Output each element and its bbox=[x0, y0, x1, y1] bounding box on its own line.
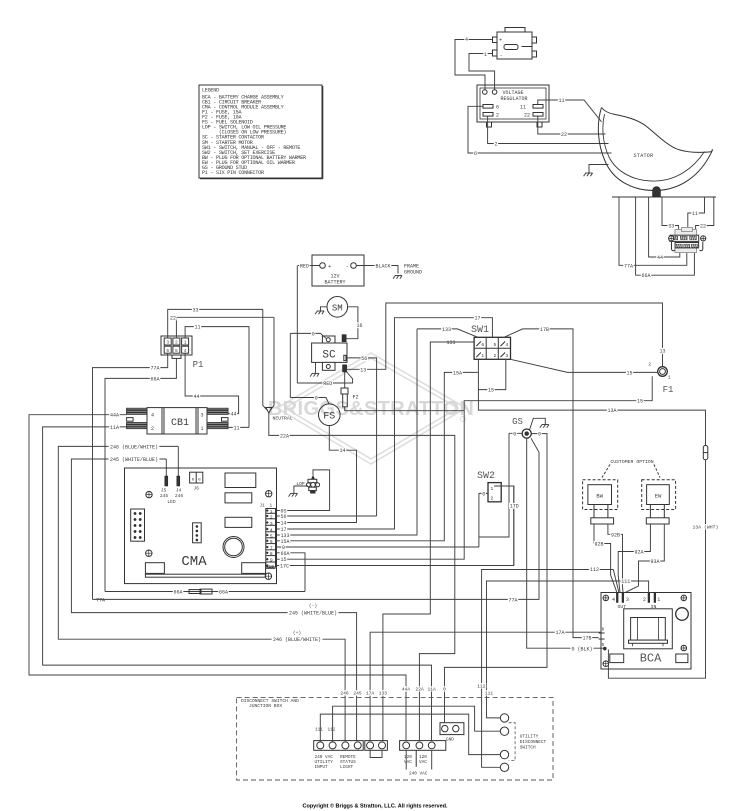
svg-text:5: 5 bbox=[270, 533, 273, 539]
label 11A bbox=[109, 424, 120, 430]
label 0 (J1) bbox=[281, 544, 285, 550]
wire 133 (upper, to SW1-6) bbox=[417, 329, 478, 337]
svg-text:P1: P1 bbox=[193, 360, 204, 370]
wire 22 (P1-2) bbox=[176, 317, 273, 338]
frame ground bbox=[393, 276, 402, 279]
svg-text:4: 4 bbox=[465, 37, 468, 43]
svg-text:66A: 66A bbox=[219, 590, 228, 596]
wire 17B (SW1-4 to BCA-5) bbox=[504, 329, 599, 638]
BCA screw BL bbox=[603, 661, 609, 667]
BCA foot L bbox=[610, 654, 624, 663]
label 245 bbox=[109, 456, 160, 462]
label 11 (conn) bbox=[691, 210, 698, 216]
label 44 bbox=[656, 254, 663, 260]
wire 17C (J1-10 to SW2) bbox=[276, 486, 514, 566]
wire F2 output to 15 net bbox=[345, 407, 465, 411]
label 17D bbox=[509, 503, 520, 509]
svg-text:-: - bbox=[500, 53, 503, 59]
label 246 bbox=[109, 444, 160, 450]
svg-text:22A: 22A bbox=[280, 433, 289, 439]
terminal strip (utility input / remote light) bbox=[314, 741, 364, 751]
wire SC to F2 bbox=[344, 372, 346, 388]
label 0 (FS) bbox=[314, 395, 318, 401]
wire RED battery to SC bbox=[297, 372, 352, 383]
svg-text:17C: 17C bbox=[280, 564, 289, 570]
J1 pin 8 bbox=[266, 555, 276, 557]
engine connector top pin 1 bbox=[671, 236, 678, 240]
engine connector bottom pin 5 bbox=[684, 244, 690, 247]
svg-text:DISCONNECT: DISCONNECT bbox=[520, 740, 547, 745]
svg-text:44: 44 bbox=[230, 412, 236, 418]
wire 56 (J1-2) bbox=[276, 515, 377, 517]
svg-text:(+): (+) bbox=[293, 630, 301, 636]
switch SW1 manual-off-remote bbox=[474, 337, 510, 359]
label 11 (CB1) bbox=[233, 425, 240, 431]
wire 17A (junction box to BCA-6) bbox=[370, 632, 601, 741]
wire 77A bottom run to GS bbox=[93, 438, 540, 599]
label 15 (F1) bbox=[626, 370, 633, 376]
svg-text:66A: 66A bbox=[150, 376, 159, 382]
svg-text:+: + bbox=[499, 38, 502, 44]
wire 245 (white/blue) bbox=[71, 459, 356, 741]
wire 111 (input to switch) bbox=[320, 714, 500, 755]
label 0 (SW2) bbox=[482, 491, 486, 497]
wire 92B (BW to BCA out) bbox=[608, 524, 623, 593]
label 17B (BCA) bbox=[582, 635, 593, 641]
label 92A bbox=[634, 549, 645, 555]
CB1 lug bar bbox=[127, 413, 147, 414]
svg-text:111: 111 bbox=[315, 728, 323, 733]
BCA inner box bbox=[624, 609, 673, 649]
label 0 (GS left) bbox=[513, 431, 517, 437]
J1 pin 4 bbox=[266, 531, 276, 533]
svg-text:15: 15 bbox=[637, 399, 643, 405]
label 17A bbox=[555, 630, 566, 636]
wire 16 SM to SC bbox=[346, 307, 358, 339]
CMA 10-pin header bbox=[131, 509, 145, 541]
svg-text:1: 1 bbox=[491, 486, 494, 492]
SW1 contact 6 bbox=[476, 342, 481, 347]
label 111 bbox=[621, 578, 632, 584]
wire 33 (P1-3) bbox=[168, 309, 263, 338]
svg-text:56: 56 bbox=[280, 514, 286, 520]
svg-text:4: 4 bbox=[184, 348, 187, 354]
svg-text:15A: 15A bbox=[453, 370, 462, 376]
svg-text:13: 13 bbox=[360, 367, 366, 373]
svg-text:17B: 17B bbox=[582, 636, 591, 642]
label 133 (SW1 up) bbox=[441, 326, 452, 332]
wire 66A (J1-8 to fuse) bbox=[276, 553, 306, 592]
wire 0 vertical SC to FS bbox=[289, 333, 291, 397]
label 66A (P1) bbox=[150, 376, 161, 382]
svg-text:92B: 92B bbox=[594, 542, 603, 548]
wire 13 (SC to F1) bbox=[347, 303, 663, 369]
svg-text:14: 14 bbox=[339, 448, 345, 454]
CB1 lug bar bbox=[127, 408, 147, 409]
circuit breaker CB1 bbox=[147, 408, 207, 434]
CMA bottom tab L bbox=[145, 563, 164, 574]
svg-text:GROUND: GROUND bbox=[404, 270, 422, 276]
svg-text:J5: J5 bbox=[161, 488, 167, 494]
svg-text:6: 6 bbox=[270, 539, 273, 545]
svg-text:0: 0 bbox=[443, 686, 446, 692]
output terminal screw x=431.7 bbox=[428, 742, 435, 749]
label 66A (fuse R) bbox=[218, 589, 229, 595]
label 33 bbox=[668, 223, 675, 229]
svg-text:33: 33 bbox=[192, 307, 198, 313]
svg-text:BCA: BCA bbox=[640, 652, 662, 666]
wire 133 (lower, SW1-6 to junction box) bbox=[383, 342, 474, 741]
svg-text:2: 2 bbox=[494, 142, 497, 148]
wire 15 (J1-9 to F1) bbox=[276, 376, 653, 559]
svg-text:133: 133 bbox=[379, 690, 388, 696]
wire 0 (GS right to GND lug) bbox=[445, 434, 548, 723]
label 246 (strip) bbox=[340, 690, 350, 695]
svg-text:2: 2 bbox=[648, 361, 651, 367]
svg-text:246 (BLUE/WHITE): 246 (BLUE/WHITE) bbox=[273, 637, 321, 643]
svg-text:1: 1 bbox=[481, 353, 484, 359]
svg-text:111: 111 bbox=[621, 579, 630, 585]
svg-text:11: 11 bbox=[233, 425, 239, 431]
svg-text:2: 2 bbox=[151, 426, 154, 432]
CB1 lug bar bbox=[127, 423, 147, 424]
svg-text:1: 1 bbox=[270, 504, 273, 509]
CB1 lug bar bbox=[207, 413, 228, 414]
wire 33 to neutral bbox=[263, 309, 267, 410]
label 245 (strip) bbox=[353, 690, 363, 695]
wire 111 (BCA in) bbox=[487, 581, 649, 718]
svg-text:5: 5 bbox=[493, 342, 496, 348]
svg-text:66A: 66A bbox=[641, 273, 650, 279]
CB1 mid tab L bbox=[127, 418, 134, 422]
svg-text:3: 3 bbox=[270, 521, 273, 527]
svg-text:1: 1 bbox=[484, 52, 487, 58]
wire 0 (GS left drop) bbox=[479, 433, 522, 537]
fuse F1 15A bbox=[658, 367, 668, 377]
svg-text:16: 16 bbox=[356, 323, 362, 329]
CMA buzzer bbox=[223, 537, 244, 558]
connector P1 bbox=[161, 336, 192, 355]
wire RED battery positive bbox=[297, 266, 319, 384]
svg-text:3: 3 bbox=[166, 340, 169, 346]
wire 112 (input to switch) bbox=[333, 706, 501, 742]
switch SW2 set exercise bbox=[488, 483, 501, 502]
starter motor SM bbox=[327, 297, 348, 318]
label 14 bbox=[339, 448, 346, 454]
wire stator ground lead bbox=[589, 165, 609, 174]
svg-text:BATTERY: BATTERY bbox=[324, 280, 345, 286]
label 11 (P1) bbox=[194, 324, 201, 330]
J1 pin 9 bbox=[266, 561, 276, 563]
svg-text:SM: SM bbox=[332, 303, 343, 313]
svg-text:GND: GND bbox=[446, 737, 454, 742]
ground (stator) bbox=[584, 173, 593, 176]
svg-text:22: 22 bbox=[700, 224, 706, 230]
svg-text:112: 112 bbox=[590, 567, 599, 573]
engine connector top pin 3 bbox=[690, 236, 697, 240]
svg-text:11: 11 bbox=[194, 325, 200, 331]
svg-text:F1: F1 bbox=[663, 385, 674, 395]
svg-text:111: 111 bbox=[485, 690, 494, 696]
utility disconnect switch contacts bbox=[500, 714, 508, 722]
wire 1 (charger - to VR) bbox=[469, 54, 495, 90]
wire 13A (SW1-1 down to splice) bbox=[478, 359, 705, 445]
svg-text:245 (WHITE/BLUE): 245 (WHITE/BLUE) bbox=[289, 611, 337, 617]
svg-text:P1 - SIX PIN CONNECTOR: P1 - SIX PIN CONNECTOR bbox=[202, 170, 264, 176]
label 0S bbox=[280, 508, 287, 514]
wire 246 (blue/white) bbox=[58, 446, 345, 741]
svg-text:246 (BLUE/WHITE): 246 (BLUE/WHITE) bbox=[110, 444, 158, 450]
svg-text:92B: 92B bbox=[611, 532, 620, 538]
voltage regulator U-VR bbox=[477, 85, 549, 127]
svg-text:VAC: VAC bbox=[404, 760, 412, 765]
engine connector top pin 2 bbox=[680, 236, 687, 240]
label 22A bbox=[279, 433, 290, 439]
terminal strip (17A/133) bbox=[365, 741, 388, 751]
svg-text:0 (BLK): 0 (BLK) bbox=[571, 647, 592, 653]
svg-text:2: 2 bbox=[270, 514, 273, 520]
BCA pin 6 tick bbox=[599, 632, 605, 634]
wire 17C (SW2-1) bbox=[494, 486, 514, 566]
svg-text:14: 14 bbox=[280, 521, 286, 527]
CMA relay block 3 bbox=[225, 517, 252, 527]
battery charge assembly BCA bbox=[601, 593, 691, 670]
BCA screw TL bbox=[603, 595, 609, 601]
svg-text:6: 6 bbox=[602, 627, 605, 633]
terminal screw x=357.7 bbox=[354, 742, 361, 749]
wire 11 stub (CB1-1) bbox=[228, 426, 249, 428]
wire 11 (P1-1 to CB1) bbox=[185, 327, 249, 428]
label (+) bbox=[292, 630, 302, 635]
engine connector bottom pin 4 bbox=[676, 244, 682, 247]
svg-text:13A: 13A bbox=[607, 408, 616, 414]
svg-text:e: e bbox=[192, 478, 195, 483]
svg-text:11: 11 bbox=[692, 211, 698, 217]
CMA relay block 2 bbox=[225, 493, 252, 503]
J1 pin 1 bbox=[266, 512, 276, 514]
wire 22 to neutral bbox=[271, 317, 275, 410]
P1 pin 5 bbox=[173, 346, 180, 353]
label 13 (SC) bbox=[360, 367, 367, 373]
wire 44 (stator) bbox=[649, 197, 680, 257]
svg-text:F2: F2 bbox=[353, 395, 359, 401]
label 15 (F1 bottom) bbox=[636, 398, 643, 404]
CB1 lug bar bbox=[127, 425, 147, 426]
svg-text:JUNCTION BOX: JUNCTION BOX bbox=[249, 703, 282, 709]
CB1 lug bar bbox=[207, 411, 228, 412]
CMA screw BL bbox=[146, 550, 152, 556]
svg-text:SC: SC bbox=[322, 350, 336, 362]
wire 77A (P1-6 left) bbox=[93, 353, 168, 599]
svg-text:17B: 17B bbox=[540, 327, 549, 333]
label pin 2 (F1) bbox=[648, 361, 652, 366]
label LOP bbox=[296, 481, 306, 486]
ground (SM) bbox=[315, 311, 324, 314]
label 44A (strip) bbox=[401, 686, 411, 691]
svg-text:133: 133 bbox=[446, 340, 455, 346]
svg-text:56: 56 bbox=[361, 356, 367, 362]
svg-text:17A: 17A bbox=[555, 630, 564, 636]
wire 2 (VR to stator) bbox=[488, 116, 609, 143]
wire 66A bottom run bbox=[105, 591, 305, 593]
svg-text:33: 33 bbox=[668, 224, 674, 230]
label 11A (strip) bbox=[427, 686, 437, 691]
svg-text:BLACK: BLACK bbox=[375, 264, 390, 270]
BCA IN pins bbox=[648, 593, 650, 603]
svg-text:1: 1 bbox=[201, 426, 204, 432]
svg-text:133: 133 bbox=[442, 327, 451, 333]
terminal screw x=332.6 bbox=[329, 742, 336, 749]
terminal strip (120/240 VAC output) bbox=[400, 741, 446, 751]
label RED (SC) bbox=[322, 380, 333, 386]
label 56 (J1) bbox=[280, 513, 287, 519]
label 93B bbox=[594, 541, 605, 547]
label 66A (fuse L) bbox=[173, 589, 184, 595]
svg-text:0: 0 bbox=[312, 331, 315, 337]
starter contactor SC bbox=[312, 336, 347, 370]
wire 22 (stator) bbox=[696, 197, 714, 236]
svg-text:11A: 11A bbox=[427, 686, 436, 692]
svg-text:6: 6 bbox=[481, 342, 484, 348]
label 0 (strip) bbox=[443, 686, 447, 691]
svg-text:44A: 44A bbox=[402, 686, 411, 692]
svg-text:LEGEND: LEGEND bbox=[202, 88, 219, 94]
CB1 mid tab R bbox=[222, 418, 229, 422]
engine 6-pin connector bbox=[670, 228, 699, 253]
wire 22A (neutral to junction box) bbox=[269, 413, 455, 741]
J1 pin 6 bbox=[266, 543, 276, 545]
label RED bbox=[299, 263, 310, 269]
label 11 bbox=[558, 97, 565, 103]
svg-text:RED: RED bbox=[323, 381, 332, 387]
label 246 (bottom) bbox=[272, 637, 323, 643]
wire 66A (P1-5 left) bbox=[105, 358, 176, 591]
label 15A (SW1) bbox=[452, 370, 463, 376]
label 22A (strip) bbox=[415, 686, 425, 691]
svg-text:2: 2 bbox=[491, 495, 494, 501]
P1 pin 3 bbox=[164, 338, 171, 345]
svg-text:10: 10 bbox=[268, 564, 274, 570]
svg-text:DISCONNECT SWITCH AND: DISCONNECT SWITCH AND bbox=[241, 698, 299, 704]
svg-text:6: 6 bbox=[474, 151, 477, 157]
label 44A bbox=[109, 412, 120, 418]
label 77A (right) bbox=[508, 597, 519, 603]
wire 77A (stator) bbox=[619, 197, 687, 265]
label 112 bbox=[589, 566, 600, 572]
wire 4 (charger + to VR) bbox=[455, 40, 493, 90]
legend box bbox=[199, 85, 322, 178]
BCA OUT pins bbox=[616, 593, 618, 603]
svg-text:22: 22 bbox=[170, 315, 176, 321]
label 111 (strip) bbox=[484, 690, 494, 695]
P1 pin 2 bbox=[173, 338, 180, 345]
svg-text:44: 44 bbox=[193, 394, 199, 400]
watermark Briggs & Stratton logo bbox=[277, 353, 466, 464]
svg-text:8: 8 bbox=[270, 551, 273, 557]
wire BLACK battery negative bbox=[356, 266, 398, 274]
svg-text:17D: 17D bbox=[510, 504, 519, 510]
label 22 bbox=[560, 131, 567, 137]
svg-text:INPUT: INPUT bbox=[315, 765, 329, 770]
engine connector clip R bbox=[700, 242, 703, 251]
wire 44 (P1-4 to CB1) bbox=[185, 353, 239, 413]
label 44 (P1) bbox=[193, 393, 200, 399]
label 15 (jumper) bbox=[487, 387, 494, 393]
svg-text:LED: LED bbox=[167, 499, 176, 505]
svg-text:112: 112 bbox=[477, 683, 486, 689]
wire SM ground lead bbox=[321, 307, 328, 311]
wire 11A (CB1-2 to junction box) bbox=[43, 427, 432, 741]
wire 0 (SW2-2) bbox=[479, 493, 488, 547]
CMA screw BR bbox=[265, 573, 271, 579]
BCA pin 5 tick bbox=[599, 638, 605, 640]
svg-text:SWITCH: SWITCH bbox=[520, 745, 536, 750]
svg-text:VAC: VAC bbox=[419, 760, 427, 765]
plug EW bbox=[647, 485, 670, 505]
GND lug block bbox=[440, 723, 464, 735]
svg-text:J6: J6 bbox=[194, 486, 200, 492]
J1 pin 5 bbox=[266, 537, 276, 539]
wire 15 jumper (SW1 1-3) bbox=[478, 359, 505, 389]
wire 0 (SC top lug) bbox=[290, 333, 326, 338]
wire SC ground lead bbox=[315, 362, 317, 373]
svg-text:22: 22 bbox=[524, 113, 530, 119]
svg-text:4: 4 bbox=[270, 527, 273, 533]
label 17C bbox=[279, 563, 290, 569]
SW1 contact 4 bbox=[501, 342, 506, 347]
P1 pin 1 bbox=[182, 338, 189, 345]
wire 13A (WHT) down to BCA bbox=[608, 460, 705, 679]
label 133 (J1) bbox=[280, 532, 291, 538]
stator slip ring blob bbox=[653, 187, 661, 197]
label 15A (J1) bbox=[280, 538, 291, 544]
svg-text:J1: J1 bbox=[260, 504, 266, 509]
stator bbox=[598, 108, 712, 191]
label 6 bbox=[473, 150, 477, 156]
wire 112 (BCA in) bbox=[482, 570, 619, 768]
svg-text:92A: 92A bbox=[634, 550, 643, 556]
svg-text:NEUTRAL: NEUTRAL bbox=[273, 416, 293, 422]
wire 44A (CB1-4 to junction box) bbox=[29, 415, 406, 741]
utility disconnect dashed bracket bbox=[509, 723, 516, 761]
BCA screw MR bbox=[681, 645, 687, 651]
svg-text:3: 3 bbox=[626, 597, 629, 603]
output terminal screw x=419.4 bbox=[416, 742, 423, 749]
svg-text:-: - bbox=[346, 263, 349, 270]
svg-text:77A: 77A bbox=[150, 366, 159, 372]
wire 93B (BW to BCA out) bbox=[594, 524, 617, 593]
wire 14 (FS to CMA J1-3) bbox=[276, 426, 357, 523]
engine connector screw L bbox=[669, 236, 674, 241]
svg-text:e: e bbox=[198, 478, 201, 483]
CMA J5 pin bbox=[165, 476, 168, 486]
SW1 contact 1 bbox=[476, 353, 481, 358]
label 44 (CB1) bbox=[230, 411, 237, 417]
SW1 contact 3 bbox=[501, 353, 506, 358]
svg-text:0: 0 bbox=[315, 396, 318, 402]
plug BW dashed outline bbox=[583, 480, 618, 510]
svg-text:77A: 77A bbox=[508, 597, 517, 603]
J1 pin 3 bbox=[266, 524, 276, 526]
label 112 (strip) bbox=[477, 683, 487, 688]
label 4 bbox=[464, 36, 468, 42]
svg-text:CUSTOMER OPTION: CUSTOMER OPTION bbox=[610, 459, 653, 465]
wire 22 (VR to stator) bbox=[538, 116, 606, 134]
label 66A bbox=[641, 273, 652, 279]
svg-text:4: 4 bbox=[506, 342, 509, 348]
svg-text:245: 245 bbox=[160, 493, 169, 499]
wire 240VAC bracket bbox=[406, 750, 432, 769]
